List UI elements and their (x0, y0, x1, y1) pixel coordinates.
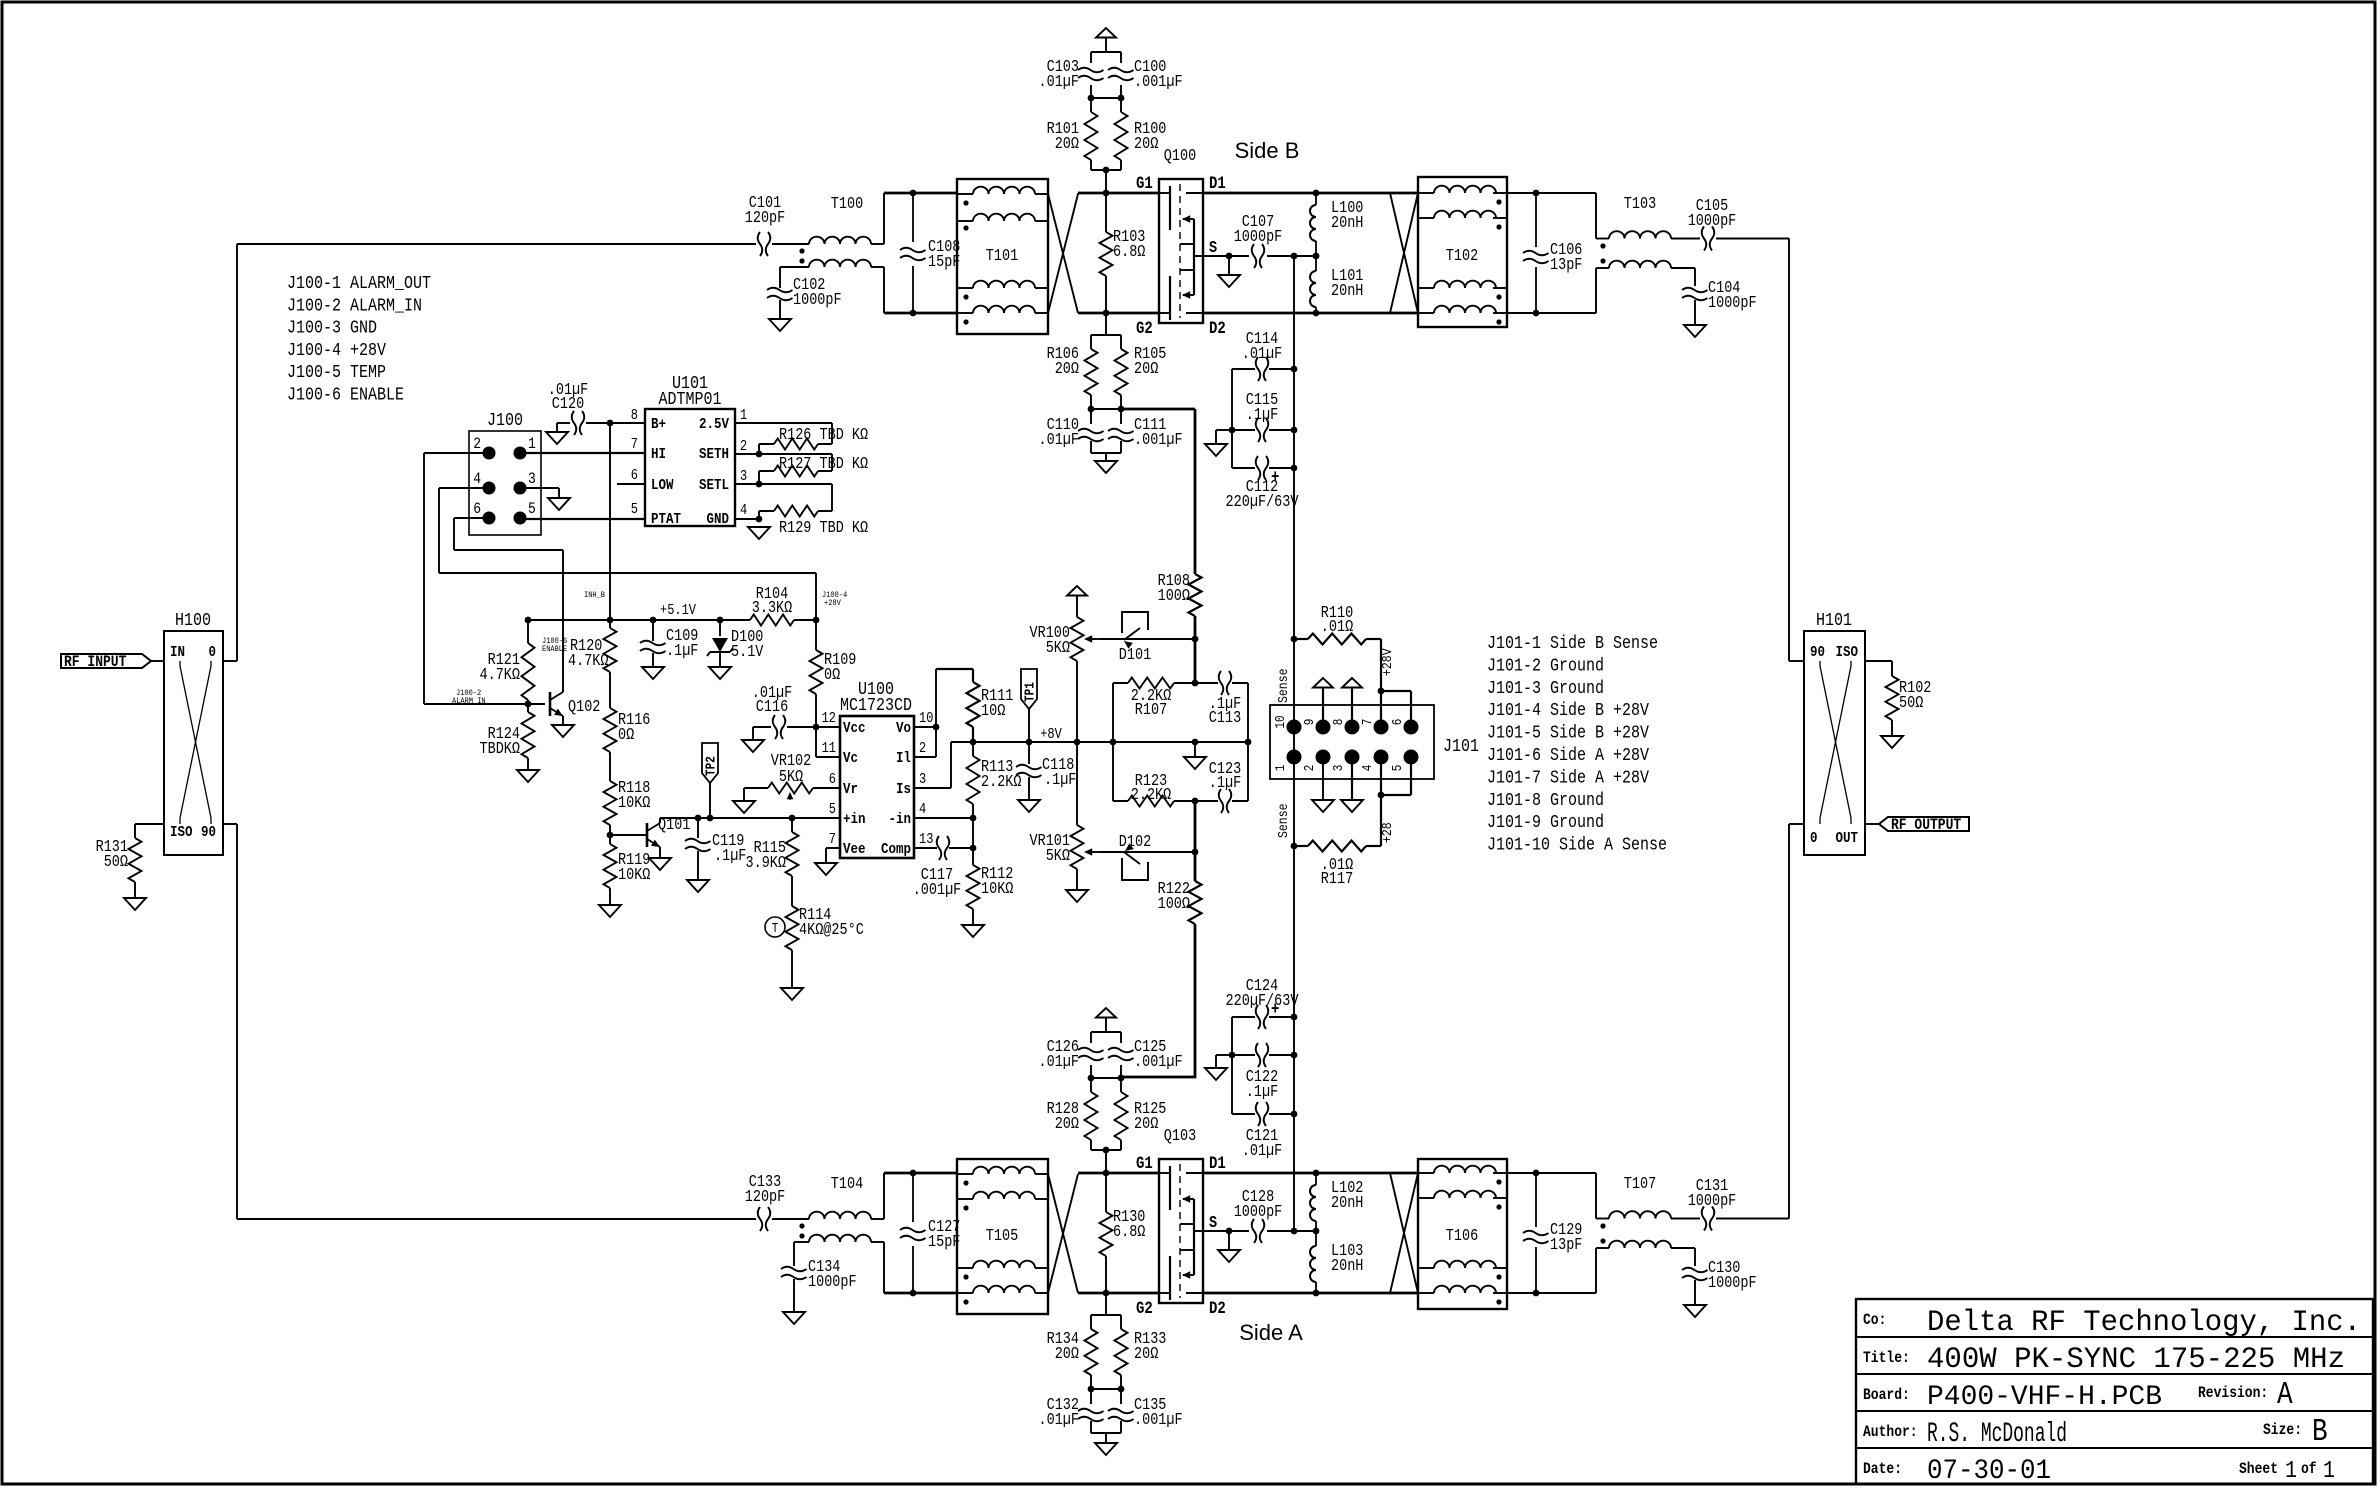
svg-text:D1: D1 (1209, 1155, 1226, 1174)
resistor R115 3.9K (791, 818, 793, 832)
svg-text:+28V: +28V (824, 598, 842, 608)
wire C120 line to B+ (586, 422, 645, 424)
thermistor circle R114 (765, 917, 785, 937)
ground Q101 (649, 858, 671, 870)
wire Q101 base (610, 834, 647, 836)
node R123 bottom (1192, 798, 1199, 805)
svg-text:8: 8 (1332, 719, 1347, 726)
svg-text:1000pF: 1000pF (1688, 211, 1737, 230)
resistor R109 0ohm (815, 620, 817, 650)
svg-text:Vo: Vo (896, 719, 911, 737)
ground R119 (599, 905, 621, 917)
ic U101 box (645, 409, 735, 526)
resistor R103 6.8ohm (1105, 193, 1107, 232)
svg-text:PTAT: PTAT (651, 510, 681, 528)
wire sense bus to J101 (1293, 639, 1295, 846)
wire D1 rail side A (1203, 1172, 1418, 1175)
resistor R110 .01ohm (1308, 634, 1366, 645)
svg-text:C120: C120 (552, 394, 584, 413)
wire R107 box sides (1112, 683, 1114, 742)
wiper arrow VR100 (1086, 638, 1100, 640)
wire C124 line (1232, 1016, 1255, 1018)
wire C115 line (1232, 429, 1255, 431)
svg-text:50Ω: 50Ω (104, 852, 128, 871)
svg-text:D2: D2 (1209, 320, 1226, 339)
svg-text:1000pF: 1000pF (1708, 1273, 1757, 1292)
svg-text:5: 5 (1391, 765, 1406, 772)
wire H100 ISO (135, 823, 164, 825)
svg-text:.01µF: .01µF (1242, 1141, 1283, 1160)
svg-text:5: 5 (631, 502, 638, 518)
title block dividers (1856, 1337, 2373, 1448)
svg-text:10Ω: 10Ω (981, 701, 1005, 720)
svg-text:Vee: Vee (843, 840, 866, 858)
svg-text:20Ω: 20Ω (1055, 359, 1079, 378)
resistor R121 4.7K (527, 620, 529, 643)
ground C109 (642, 667, 664, 679)
svg-text:.01Ω: .01Ω (1321, 617, 1353, 636)
capacitor C118 .1uF (1028, 742, 1030, 764)
node R134/R133 bottom (1091, 1388, 1121, 1390)
svg-text:S: S (1209, 238, 1217, 257)
capacitor C113 .1uF (1219, 671, 1232, 695)
svg-text:Sense: Sense (1276, 804, 1292, 839)
inductor L101 20nH (1315, 256, 1317, 271)
capacitor C104 1000pF (1682, 288, 1708, 301)
wire C cluster left edge (1231, 369, 1233, 468)
svg-text:D1: D1 (1209, 175, 1226, 194)
node D102/R122 (1192, 849, 1199, 856)
svg-text:4KΩ@25°C: 4KΩ@25°C (799, 920, 864, 939)
hybrid H100 box (164, 631, 223, 855)
svg-text:2.5V: 2.5V (699, 415, 730, 433)
svg-text:J100-6 ENABLE: J100-6 ENABLE (287, 386, 404, 406)
potentiometer VR101 5K (1076, 742, 1078, 825)
wire Q103 source (1194, 1230, 1249, 1232)
svg-text:4: 4 (919, 802, 926, 818)
svg-text:ADTMP01: ADTMP01 (659, 390, 722, 410)
ground below VR101 (1066, 890, 1088, 902)
wire R116 to R118 (609, 752, 611, 781)
capacitor C123 .1uF (1219, 789, 1232, 813)
wire R129 links (759, 484, 832, 519)
wire C110/C111 bottom to ground (1091, 452, 1121, 454)
ground below +8V rail (1184, 757, 1206, 769)
svg-text:.1µF: .1µF (1044, 770, 1076, 789)
ground below C132/C135 (1095, 1443, 1117, 1455)
wire T102 to C106 top (1507, 192, 1596, 194)
resistor R134 20ohm (1090, 1315, 1092, 1329)
svg-text:5KΩ: 5KΩ (1046, 846, 1070, 865)
resistor R107 2.2K (1128, 678, 1174, 689)
svg-text:.001µF: .001µF (1134, 1052, 1183, 1071)
wire J101 pin9 power (1322, 688, 1324, 727)
flag RF OUTPUT (1879, 817, 1969, 831)
svg-text:.1µF: .1µF (714, 846, 746, 865)
hybrid H100 crossover (180, 666, 211, 818)
svg-text:20Ω: 20Ω (1055, 134, 1079, 153)
resistor R123 2.2K (1128, 796, 1174, 807)
svg-text:R126 TBD KΩ: R126 TBD KΩ (779, 425, 868, 444)
svg-text:4.7KΩ: 4.7KΩ (480, 665, 521, 684)
svg-text:B+: B+ (651, 415, 666, 433)
transformer T103 phase dots (1600, 243, 1605, 248)
capacitor C131 1000pF (1702, 1207, 1715, 1231)
svg-text:.01µF: .01µF (1242, 344, 1283, 363)
svg-text:4: 4 (740, 503, 747, 519)
svg-text:20Ω: 20Ω (1134, 1344, 1158, 1363)
wire H101 ISO (1865, 660, 1892, 662)
node C103/C100 bottom (1088, 95, 1095, 102)
ground C116 (742, 740, 764, 752)
svg-text:13pF: 13pF (1550, 255, 1582, 274)
svg-text:C113: C113 (1209, 708, 1241, 727)
wire C104 to ground (1694, 300, 1696, 325)
svg-text:Vr: Vr (843, 780, 858, 798)
svg-text:ISO: ISO (170, 823, 193, 841)
wire J100 pin4 +28V feed (439, 488, 816, 620)
wire box C103/C100 (1091, 52, 1121, 98)
wiper arrow VR101 (1086, 851, 1100, 853)
resistor R133 20ohm (1120, 1315, 1122, 1329)
svg-text:1: 1 (2323, 1458, 2335, 1485)
svg-text:1000pF: 1000pF (1688, 1191, 1737, 1210)
svg-text:1000pF: 1000pF (1234, 227, 1283, 246)
wire T106 to C129 top (1507, 1172, 1596, 1174)
svg-text:7: 7 (631, 437, 638, 453)
wire G2 to R134/R133 (1105, 1293, 1107, 1315)
svg-text:RF OUTPUT: RF OUTPUT (1891, 816, 1962, 834)
wire Comp link (914, 847, 937, 849)
wire C128 to L junction (1267, 1230, 1316, 1232)
test point TP1 (1021, 669, 1037, 709)
svg-text:Delta RF Technology, Inc.: Delta RF Technology, Inc. (1927, 1306, 2361, 1340)
wire source ground stub side A (1228, 1231, 1230, 1250)
svg-text:20Ω: 20Ω (1134, 134, 1158, 153)
wire C134 to ground (793, 1279, 795, 1312)
wire Vo link (914, 726, 936, 728)
transformer T107 winding 2 (1595, 1248, 1597, 1293)
svg-text:2.2KΩ: 2.2KΩ (1131, 785, 1172, 804)
wire H101 OUT (1865, 823, 1879, 825)
svg-text:B: B (2312, 1414, 2328, 1450)
svg-text:20Ω: 20Ω (1055, 1114, 1079, 1133)
capacitor C105 1000pF (1702, 227, 1715, 251)
svg-text:20Ω: 20Ω (1134, 1114, 1158, 1133)
capacitor C112 220uF (1256, 456, 1269, 480)
svg-text:5: 5 (528, 500, 536, 518)
wire C102 lead (779, 267, 781, 288)
svg-text:J101-7 Side A +28V: J101-7 Side A +28V (1487, 768, 1649, 788)
svg-text:GND: GND (707, 510, 730, 528)
resistor R127 TBD (774, 466, 818, 477)
resistor R128 20ohm (1090, 1078, 1092, 1092)
svg-text:4.7KΩ: 4.7KΩ (568, 651, 609, 670)
ground C124 cluster (1205, 1068, 1227, 1080)
svg-text:J101-6 Side A +28V: J101-6 Side A +28V (1487, 746, 1649, 766)
capacitor C102 1000pF (767, 288, 793, 301)
transformer T102 winding A (1434, 186, 1496, 193)
wire R101/R100 bottom to G1 rail (1091, 170, 1121, 193)
svg-text:0: 0 (1810, 829, 1818, 847)
svg-text:Il: Il (896, 749, 911, 767)
resistor R122 100ohm (1189, 881, 1202, 924)
wire sense bus upper (1293, 256, 1295, 369)
resistor R119 10K (604, 844, 617, 888)
connector J100 pins (483, 447, 496, 460)
power arrow above C126/C125 (1096, 1008, 1116, 1018)
node G1 junctions (910, 190, 917, 197)
capacitor C129 13pF (1523, 1231, 1549, 1244)
svg-text:RF INPUT: RF INPUT (64, 653, 127, 671)
wire Q101 collector (659, 818, 661, 823)
svg-text:R.S. McDonald: R.S. McDonald (1927, 1419, 2067, 1450)
svg-text:120pF: 120pF (745, 208, 786, 227)
wire sense bus C cluster (1293, 369, 1295, 639)
svg-text:13: 13 (919, 832, 933, 848)
svg-text:of: of (2301, 1460, 2317, 1478)
svg-text:100Ω: 100Ω (1158, 894, 1190, 913)
svg-text:T104: T104 (831, 1174, 863, 1193)
svg-text:7: 7 (1361, 719, 1376, 726)
wire Q102 collector stub (562, 690, 564, 692)
svg-text:.001µF: .001µF (913, 880, 962, 899)
capacitor C103 .01uF (1078, 68, 1104, 81)
wire C102 to ground (779, 300, 781, 319)
svg-text:Is: Is (896, 780, 911, 798)
resistor R102 50ohm (1886, 676, 1899, 720)
transformer T102 winding C (1434, 281, 1496, 288)
svg-text:2: 2 (1303, 765, 1318, 772)
ground D100 (709, 667, 731, 679)
capacitor C114 .01uF (1256, 357, 1269, 381)
svg-text:ISO: ISO (1836, 643, 1859, 661)
resistor R131 50ohm (129, 838, 142, 882)
wire C130 to ground (1694, 1280, 1696, 1305)
wire J101 pin5 feed (1410, 757, 1412, 795)
svg-text:J100-1 ALARM_OUT: J100-1 ALARM_OUT (287, 274, 431, 294)
capacitor C110 .01uF (1090, 409, 1092, 424)
node R108/D101 (1192, 636, 1199, 643)
wire C107 to L junction (1267, 255, 1316, 257)
svg-text:2: 2 (919, 741, 926, 757)
resistor R112 10K (972, 848, 974, 865)
transformer T101 winding A (973, 187, 1035, 194)
svg-text:0Ω: 0Ω (824, 665, 840, 684)
svg-text:13pF: 13pF (1550, 1235, 1582, 1254)
wire R127 links (735, 454, 832, 484)
transformer T103 winding 2 (1595, 268, 1597, 313)
svg-text:20Ω: 20Ω (1134, 359, 1158, 378)
wire G2 rail side B (884, 312, 1159, 315)
wire C112 line (1232, 467, 1255, 469)
svg-text:20nH: 20nH (1331, 1256, 1363, 1275)
svg-text:Co:: Co: (1863, 1311, 1886, 1329)
wire T102 input crossover X (1390, 193, 1418, 313)
resistor R100 20ohm (1120, 98, 1122, 112)
transformer T102 box (1418, 177, 1507, 327)
wire Vee ground (826, 847, 840, 849)
svg-text:Vc: Vc (843, 749, 858, 767)
transformer T106 winding D (1434, 1286, 1496, 1293)
wire U101 2.5V to R126 (735, 423, 832, 454)
connector J101 box (1270, 705, 1434, 779)
svg-text:TP1: TP1 (1024, 682, 1039, 702)
svg-text:5: 5 (829, 802, 836, 818)
transformer T100 phase dots (799, 248, 804, 253)
capacitor C120 .01uF (572, 411, 585, 435)
wire RF input to H100 (151, 660, 164, 662)
svg-text:J100: J100 (487, 411, 523, 431)
svg-text:.001µF: .001µF (1134, 430, 1183, 449)
svg-text:T106: T106 (1446, 1226, 1478, 1245)
svg-text:Board:: Board: (1863, 1386, 1910, 1404)
svg-text:TBDKΩ: TBDKΩ (480, 739, 521, 758)
wire R117 line (1294, 845, 1308, 847)
capacitor C130 1000pF (1682, 1268, 1708, 1281)
svg-text:2: 2 (740, 439, 747, 455)
wire G1 rail side A (884, 1172, 1159, 1175)
ground R114 (781, 988, 803, 1000)
svg-text:Revision:: Revision: (2198, 1384, 2268, 1402)
svg-text:T107: T107 (1624, 1174, 1656, 1193)
wire T106 to C129 bottom (1507, 1292, 1596, 1294)
ground below C130 (1684, 1305, 1706, 1317)
svg-text:Comp: Comp (881, 840, 911, 858)
ground below C134 (783, 1312, 805, 1324)
svg-text:H100: H100 (175, 611, 211, 631)
resistor R113 2.2K (972, 742, 974, 756)
svg-text:2.2KΩ: 2.2KΩ (981, 772, 1022, 791)
wire R110 line (1294, 638, 1308, 640)
resistor R124 TBDK (522, 712, 535, 758)
wire J101 pin6 feed (1410, 691, 1412, 727)
resistor R129 TBD (774, 506, 818, 517)
capacitor C101 120pF (758, 232, 771, 256)
transformer T105 winding A (973, 1167, 1035, 1174)
ground U100 Vee (815, 863, 837, 875)
wire RF input line side A (237, 1218, 809, 1220)
svg-text:4: 4 (1361, 765, 1376, 772)
svg-text:J101-4 Side B +28V: J101-4 Side B +28V (1487, 701, 1649, 721)
transformer T100 winding 1 (809, 237, 871, 244)
svg-text:R107: R107 (1135, 700, 1167, 719)
wire C cluster A ground stub (1216, 1054, 1232, 1056)
ground J101 pin3 (1341, 800, 1363, 812)
transistor Q103 box (1159, 1159, 1203, 1303)
node R107 top (1192, 680, 1199, 687)
svg-text:Sense: Sense (1276, 669, 1292, 704)
svg-text:G1: G1 (1136, 1155, 1153, 1174)
wire Vc pin11 (815, 727, 817, 757)
svg-text:10KΩ: 10KΩ (618, 865, 650, 884)
svg-text:8: 8 (631, 408, 638, 424)
resistor R101 20ohm (1090, 98, 1092, 112)
transformer T105 box (957, 1159, 1048, 1314)
resistor R108 100ohm (1189, 574, 1202, 616)
svg-text:ALARM_IN: ALARM_IN (452, 696, 486, 706)
transformer T107 phase dots (1600, 1223, 1605, 1228)
capacitor C108 15pF (900, 248, 926, 261)
wire C130 lead (1694, 1248, 1696, 1266)
capacitor C122 .1uF (1256, 1043, 1269, 1067)
capacitor C124 220uF (1256, 1005, 1269, 1029)
svg-text:T101: T101 (986, 246, 1018, 265)
svg-text:3: 3 (740, 469, 747, 485)
transformer T107 winding 1 (1595, 1173, 1597, 1219)
ground C120 (546, 432, 568, 444)
svg-text:G2: G2 (1136, 320, 1153, 339)
capacitor C126 .01uF (1078, 1048, 1104, 1061)
flag RF INPUT (61, 654, 151, 668)
svg-text:20nH: 20nH (1331, 213, 1363, 232)
svg-text:.01µF: .01µF (1039, 1052, 1080, 1071)
wire C121 line (1232, 1113, 1255, 1115)
svg-text:HI: HI (651, 445, 666, 463)
connector J101 top pins (1287, 720, 1302, 735)
wire -in link (914, 817, 973, 819)
wire J100 pin2 alarm-in (424, 453, 545, 704)
svg-text:G1: G1 (1136, 175, 1153, 194)
wire VR101 wiper to D102 (1100, 851, 1117, 853)
node +8V junctions (970, 739, 977, 746)
transformer T105 winding B (973, 1192, 1035, 1199)
power arrow above C103/C100 (1096, 28, 1116, 38)
capacitor C119 .1uF (697, 818, 699, 838)
svg-text:+28V: +28V (1380, 648, 1396, 676)
svg-text:C116: C116 (756, 697, 788, 716)
wire source ground stub (1228, 256, 1230, 275)
wire J101 pin4 to R117 (1380, 757, 1382, 846)
svg-text:D2: D2 (1209, 1300, 1226, 1319)
wire H101 port 0 (1789, 823, 1804, 825)
svg-text:J101-3 Ground: J101-3 Ground (1487, 679, 1604, 699)
power arrow above VR100 (1067, 586, 1087, 596)
svg-text:J100-3 GND: J100-3 GND (287, 319, 377, 339)
ground at Q103 source (1218, 1250, 1240, 1262)
svg-text:.001µF: .001µF (1134, 1410, 1183, 1429)
svg-text:H101: H101 (1816, 611, 1852, 631)
svg-text:D101: D101 (1119, 645, 1151, 664)
resistor R114 4K (786, 906, 799, 950)
svg-text:4: 4 (473, 470, 481, 488)
capacitor C132 .01uF (1090, 1389, 1092, 1404)
wire C129 vertical (1535, 1173, 1537, 1293)
wire H100 port 90 (223, 823, 237, 825)
wire H100 port 0 (223, 660, 237, 662)
ground VR102 (733, 801, 755, 813)
transformer T102 winding B (1434, 211, 1496, 218)
capacitor C127 15pF (900, 1228, 926, 1241)
wire VR102 left ground (743, 788, 745, 801)
svg-text:D102: D102 (1119, 832, 1151, 851)
capacitor C117 .001uF (937, 836, 950, 860)
svg-text:INH_B: INH_B (584, 590, 605, 600)
transistor Q102 (549, 692, 552, 716)
svg-text:120pF: 120pF (745, 1187, 786, 1206)
transistor Q101 (646, 823, 649, 847)
transformer T106 box (1418, 1159, 1507, 1309)
wire RF input line side B (237, 243, 809, 245)
ground J100 pin3 (548, 498, 570, 510)
transformer T106 phase dots (1496, 1179, 1501, 1184)
transformer T105 phase dots (963, 1180, 968, 1185)
svg-text:+8V: +8V (1040, 727, 1062, 743)
wire J100 pin1 to U101 HI (526, 452, 645, 454)
wire T101 output crossover X (1048, 194, 1078, 313)
svg-text:100Ω: 100Ω (1158, 586, 1190, 605)
capacitor C107 1000pF (1252, 244, 1265, 268)
